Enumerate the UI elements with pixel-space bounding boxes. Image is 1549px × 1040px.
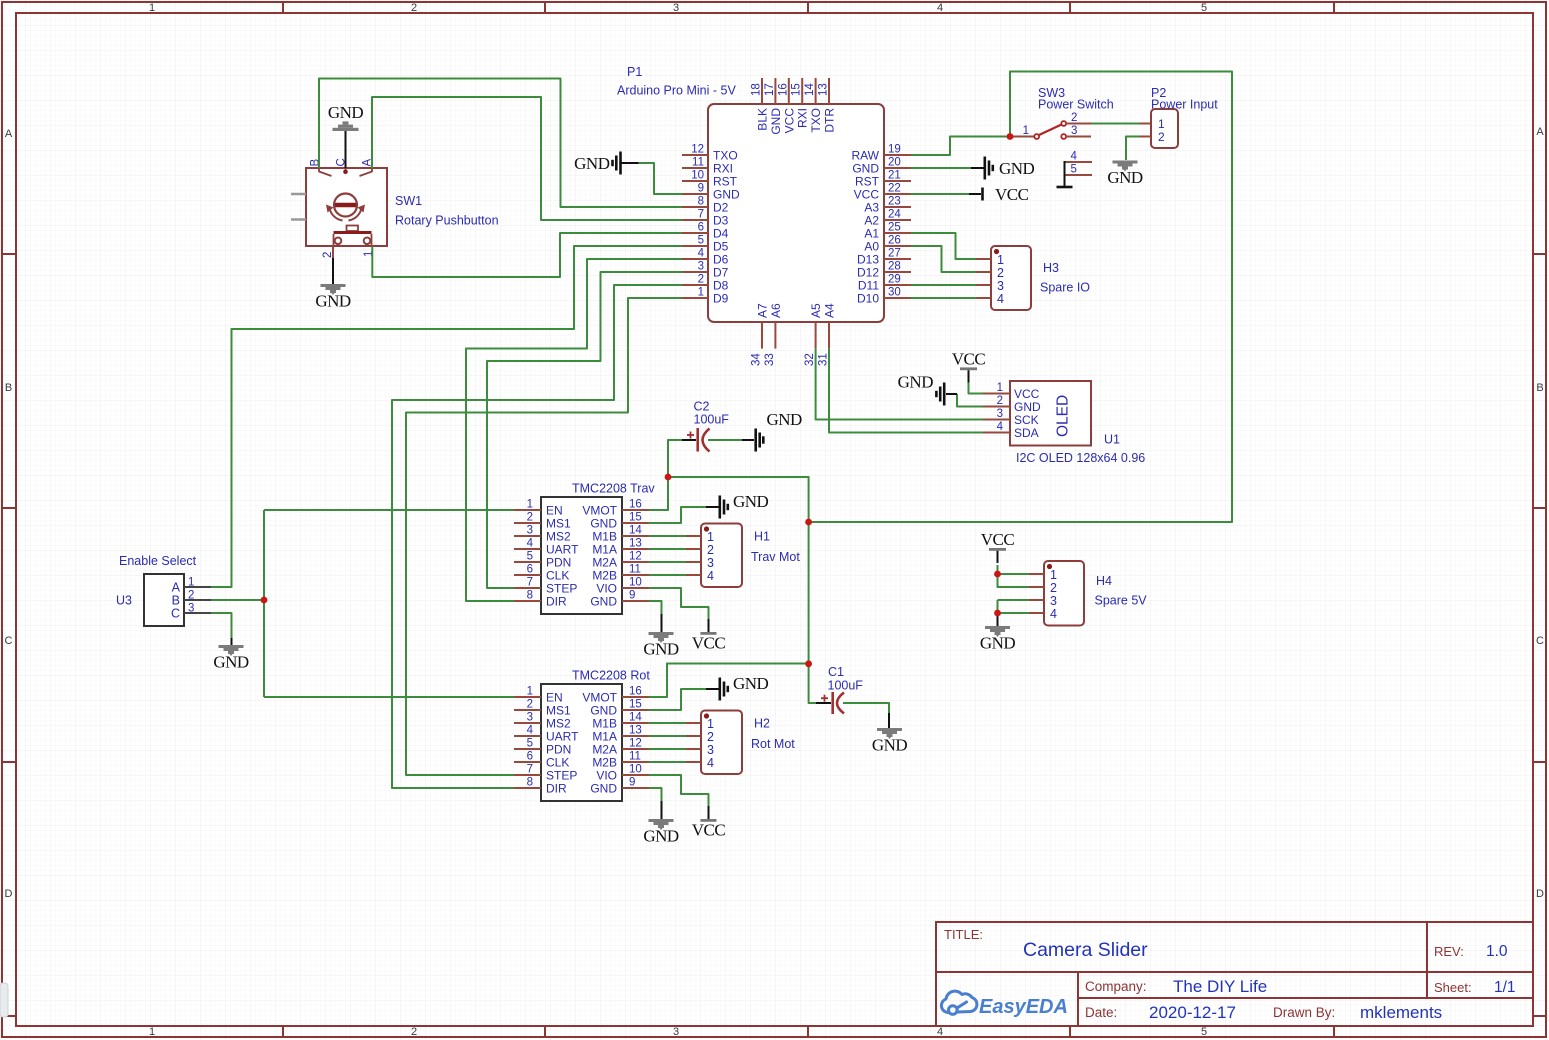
wire Rot GND pin9	[649, 788, 662, 807]
svg-text:U3: U3	[116, 594, 132, 608]
pin 1 A	[184, 586, 211, 588]
svg-text:GND: GND	[328, 103, 364, 122]
ground below C1	[877, 728, 902, 731]
pin 7 STEP	[514, 587, 541, 589]
svg-text:5: 5	[1071, 164, 1077, 176]
svg-text:14: 14	[804, 83, 816, 96]
junction U3.B node	[261, 597, 268, 604]
svg-text:3: 3	[673, 1026, 679, 1038]
power flag VCC above H4	[989, 548, 1006, 551]
pin 12 TXO	[682, 154, 708, 156]
svg-text:4: 4	[698, 248, 705, 260]
pin 8 DIR	[514, 600, 541, 602]
svg-text:9: 9	[629, 777, 635, 789]
svg-text:GND: GND	[767, 410, 803, 429]
wire P2.2 to ground	[1126, 137, 1140, 161]
svg-text:Date:: Date:	[1085, 1005, 1117, 1020]
svg-text:VIO: VIO	[596, 769, 617, 783]
pin 4	[686, 574, 701, 576]
svg-text:M1B: M1B	[592, 530, 617, 544]
wire Trav motor pin to H1 y=549	[649, 548, 686, 550]
wire C2 positive lead	[668, 440, 682, 477]
pin 6 CLK	[514, 761, 541, 763]
pin 3 MS2	[514, 722, 541, 724]
svg-text:STEP: STEP	[546, 769, 577, 783]
svg-text:Spare 5V: Spare 5V	[1095, 594, 1148, 608]
svg-text:Rotary Pushbutton: Rotary Pushbutton	[395, 214, 499, 228]
svg-text:VMOT: VMOT	[582, 691, 617, 705]
svg-text:GND: GND	[999, 159, 1035, 178]
EasyEDA logo	[941, 991, 977, 1014]
svg-text:H1: H1	[754, 530, 770, 544]
svg-text:MS1: MS1	[546, 704, 571, 718]
connector H3 Spare IO	[976, 246, 1090, 310]
wire net VMOT down	[808, 522, 810, 664]
svg-text:Camera Slider: Camera Slider	[1023, 939, 1148, 961]
svg-text:GND: GND	[980, 634, 1016, 653]
pin 1 VCC	[983, 393, 1010, 395]
pin 13 M1A	[622, 548, 649, 550]
ground GND above SW1	[333, 128, 359, 131]
wire net RAW to power switch	[911, 137, 1008, 156]
svg-text:9: 9	[629, 590, 635, 602]
pin 2 D8	[682, 284, 708, 286]
wire Rot motor pin to H2 y=736	[649, 735, 686, 737]
svg-text:2: 2	[1071, 112, 1077, 124]
svg-text:CLK: CLK	[546, 569, 569, 583]
pin 9 GND	[622, 600, 649, 602]
pin 18 BLK	[761, 78, 763, 104]
SW3 lever	[1039, 125, 1062, 136]
wire net D9 : P1.D9 to TMC Rot STEP	[406, 298, 682, 775]
wire net D2 : SW1.B to P1.D2	[319, 79, 682, 208]
pin 20 GND	[884, 167, 911, 169]
pin 3 MS2	[514, 535, 541, 537]
wire net D3 : SW1.A to P1.D3	[372, 97, 682, 220]
SW3 pin 1	[1012, 136, 1034, 138]
svg-text:27: 27	[888, 248, 901, 260]
svg-text:16: 16	[629, 686, 642, 698]
svg-text:H3: H3	[1043, 261, 1059, 275]
wire Rot motor pin to H2 y=749	[649, 748, 686, 750]
svg-text:SDA: SDA	[1014, 426, 1039, 440]
svg-text:1: 1	[527, 499, 533, 511]
svg-text:3: 3	[707, 743, 714, 757]
svg-text:3: 3	[188, 603, 194, 615]
svg-text:14: 14	[629, 712, 642, 724]
svg-text:6: 6	[527, 751, 533, 763]
svg-text:M2B: M2B	[592, 756, 617, 770]
IC TMC2208 Rot stepper driver	[514, 669, 650, 802]
svg-text:TITLE:: TITLE:	[944, 927, 983, 942]
svg-text:2: 2	[997, 266, 1004, 280]
svg-text:4: 4	[707, 756, 714, 770]
wire net D10 to H3.4	[911, 297, 976, 299]
svg-text:5: 5	[527, 738, 533, 750]
switch SW1 Rotary Pushbutton	[291, 158, 499, 258]
svg-text:11: 11	[629, 564, 641, 576]
svg-text:VCC: VCC	[782, 108, 796, 134]
svg-text:A4: A4	[823, 303, 837, 318]
svg-text:GND: GND	[898, 373, 934, 392]
svg-text:PDN: PDN	[546, 556, 571, 570]
svg-text:100uF: 100uF	[828, 679, 864, 693]
svg-text:VCC: VCC	[981, 530, 1015, 549]
wire net A1 to H3.1	[911, 233, 976, 259]
svg-text:VCC: VCC	[952, 349, 986, 368]
svg-text:Power Switch: Power Switch	[1038, 98, 1114, 112]
pin 29 D11	[884, 284, 911, 286]
pin 5 D5	[682, 245, 708, 247]
junction node VMOT mid	[805, 519, 812, 526]
svg-text:2: 2	[1050, 581, 1057, 595]
svg-text:VMOT: VMOT	[582, 504, 617, 518]
svg-text:4: 4	[527, 725, 534, 737]
svg-text:A3: A3	[864, 201, 879, 215]
pin 1 EN	[514, 696, 541, 698]
svg-text:C1: C1	[828, 665, 844, 679]
power flag VCC below Rot	[708, 806, 710, 819]
pin 19 RAW	[884, 154, 911, 156]
svg-text:GND: GND	[713, 188, 740, 202]
svg-text:Trav Mot: Trav Mot	[751, 550, 800, 564]
pin 31 A4	[828, 322, 830, 349]
svg-text:D3: D3	[713, 214, 729, 228]
wire net VMOT top loop	[809, 72, 1232, 523]
svg-text:VCC: VCC	[854, 188, 880, 202]
svg-text:8: 8	[698, 196, 704, 208]
ground below Rot pin9	[649, 819, 674, 822]
wire net D8 : P1.D8 to TMC Rot DIR	[392, 285, 682, 788]
svg-text:RST: RST	[855, 175, 880, 189]
svg-text:The DIY Life: The DIY Life	[1173, 977, 1267, 996]
pin 14 M1B	[622, 722, 649, 724]
svg-text:1: 1	[698, 287, 704, 299]
pin 7 STEP	[514, 774, 541, 776]
pin 23 A3	[884, 206, 911, 208]
pin 33 A6	[774, 322, 776, 349]
pin 3	[686, 561, 701, 563]
svg-text:2: 2	[997, 395, 1003, 407]
svg-text:1: 1	[149, 1026, 155, 1038]
svg-text:GND: GND	[574, 154, 610, 173]
pin 13 DTR	[828, 78, 830, 104]
pin 3 SCK	[983, 419, 1010, 421]
connector H2 Rot Mot	[686, 711, 742, 775]
pin 4 UART	[514, 548, 541, 550]
wire Trav motor pin to H1 y=536	[649, 535, 686, 537]
svg-text:29: 29	[888, 274, 901, 286]
svg-text:M2A: M2A	[592, 743, 617, 757]
svg-text:9: 9	[698, 183, 704, 195]
wire net VMOT mid	[668, 477, 809, 522]
svg-text:M2A: M2A	[592, 556, 617, 570]
svg-text:I2C OLED 128x64 0.96: I2C OLED 128x64 0.96	[1016, 451, 1145, 465]
pin 2	[686, 735, 701, 737]
wire Rot GND pin15	[649, 689, 706, 710]
pin 2	[1029, 586, 1044, 588]
SW1 pushbutton	[347, 226, 359, 232]
pin 15 RXI	[801, 78, 803, 104]
pin 3	[976, 284, 991, 286]
wire net SCK : A5 to OLED	[816, 349, 983, 420]
svg-text:GND: GND	[590, 704, 617, 718]
svg-text:3: 3	[673, 2, 679, 14]
svg-text:TXO: TXO	[713, 149, 738, 163]
svg-text:D: D	[5, 888, 13, 900]
wire C1 positive lead	[809, 664, 816, 703]
svg-text:2: 2	[188, 590, 194, 602]
junction H4 GND node	[994, 610, 1001, 617]
pin 2 MS1	[514, 709, 541, 711]
svg-text:D9: D9	[713, 292, 729, 306]
wire enable net to Trav EN	[264, 509, 514, 511]
svg-text:GND: GND	[733, 492, 769, 511]
svg-text:30: 30	[888, 287, 901, 299]
svg-text:DIR: DIR	[546, 595, 567, 609]
wire enable net to Rot EN	[264, 696, 514, 698]
svg-text:3: 3	[527, 712, 533, 724]
wire net D7 : P1.D7 to TMC Trav STEP	[487, 272, 682, 588]
pin 4	[976, 297, 991, 299]
svg-text:2: 2	[707, 543, 714, 557]
wire OLED VCC	[969, 382, 984, 394]
svg-text:1: 1	[149, 2, 155, 14]
pin 9 GND	[682, 193, 708, 195]
wire U3.B to enable net	[211, 599, 264, 601]
power flag VCC above OLED	[960, 367, 977, 370]
svg-text:2: 2	[411, 1026, 417, 1038]
svg-text:7: 7	[527, 577, 533, 589]
svg-text:1: 1	[527, 686, 533, 698]
IC U3 Enable Select	[116, 554, 211, 626]
svg-text:GND: GND	[733, 674, 769, 693]
svg-text:BLK: BLK	[756, 108, 770, 131]
wire H4 VCC net	[998, 565, 1030, 587]
pin 16 VMOT	[622, 696, 649, 698]
svg-text:2020-12-17: 2020-12-17	[1149, 1003, 1236, 1022]
svg-text:13: 13	[629, 538, 642, 550]
svg-text:2: 2	[1158, 130, 1165, 144]
svg-text:2: 2	[698, 274, 704, 286]
svg-text:GND: GND	[769, 108, 783, 135]
pin 2 MS1	[514, 522, 541, 524]
pin 26 A0	[884, 245, 911, 247]
svg-text:VCC: VCC	[692, 821, 726, 840]
pin 11 M2B	[622, 761, 649, 763]
zone tick marks	[282, 2, 284, 13]
wire Trav GND pin9	[649, 601, 662, 620]
wire U3.C to ground	[211, 613, 232, 644]
svg-text:26: 26	[888, 235, 901, 247]
svg-text:23: 23	[888, 196, 901, 208]
svg-text:22: 22	[888, 183, 901, 195]
svg-text:4: 4	[937, 2, 943, 14]
pin 3	[1029, 599, 1044, 601]
svg-text:GND: GND	[872, 736, 908, 755]
svg-text:Drawn By:: Drawn By:	[1273, 1005, 1335, 1020]
junction node at SW3 pin1	[1007, 133, 1014, 140]
svg-text:GND: GND	[1014, 400, 1041, 414]
pin 1	[1029, 573, 1044, 575]
svg-text:UART: UART	[546, 543, 579, 557]
wire TMC Trav VMOT pin16	[649, 477, 668, 510]
svg-text:1: 1	[188, 577, 194, 589]
junction H4 VCC node	[994, 571, 1001, 578]
power flag VCC pin22	[969, 193, 981, 195]
svg-text:1: 1	[1050, 568, 1057, 582]
junction node C1/VMOT	[805, 660, 812, 667]
ground left of OLED	[946, 393, 957, 395]
svg-text:6: 6	[527, 564, 533, 576]
svg-text:1: 1	[707, 717, 714, 731]
SW3 pins 4 5	[1065, 161, 1093, 163]
svg-text:RXI: RXI	[796, 108, 810, 128]
SW3 pin4/5 ground bar	[1064, 161, 1066, 187]
pin 10 VIO	[622, 774, 649, 776]
svg-text:4: 4	[1050, 607, 1057, 621]
ground below U3	[219, 645, 244, 648]
svg-text:A0: A0	[864, 240, 879, 254]
svg-text:B: B	[172, 594, 180, 608]
pin 2	[976, 271, 991, 273]
IC U1 I2C OLED 128x64 0.96	[983, 381, 1145, 465]
svg-text:100uF: 100uF	[694, 413, 730, 427]
svg-text:15: 15	[791, 83, 803, 96]
svg-text:A6: A6	[769, 303, 783, 318]
pin 2 B	[184, 599, 211, 601]
svg-text:1: 1	[707, 530, 714, 544]
svg-text:3: 3	[997, 408, 1003, 420]
pin 3 D7	[682, 271, 708, 273]
pin 24 A2	[884, 219, 911, 221]
svg-text:D11: D11	[858, 279, 879, 293]
ground below P2	[1113, 161, 1138, 164]
pin 1	[686, 722, 701, 724]
pin 4 UART	[514, 735, 541, 737]
svg-text:VCC: VCC	[995, 185, 1029, 204]
svg-text:12: 12	[691, 144, 704, 156]
title block frame	[936, 922, 1533, 1026]
P2 pin 1	[1140, 123, 1152, 125]
svg-text:VIO: VIO	[596, 582, 617, 596]
wire net D6 : P1.D6 to TMC Trav DIR	[466, 259, 682, 601]
wire Rot motor pin to H2 y=762	[649, 761, 686, 763]
pin 13 M1A	[622, 735, 649, 737]
pin 14 M1B	[622, 535, 649, 537]
wire net A0 to H3.2	[911, 246, 976, 272]
svg-text:18: 18	[751, 83, 763, 96]
svg-text:B: B	[5, 382, 12, 394]
svg-text:UART: UART	[546, 730, 579, 744]
svg-text:7: 7	[698, 209, 704, 221]
pin 11 M2B	[622, 574, 649, 576]
svg-text:D6: D6	[713, 253, 729, 267]
svg-text:M2B: M2B	[592, 569, 617, 583]
wire P1 GND pin9 to ground flag	[638, 163, 682, 194]
svg-text:GND: GND	[1107, 168, 1143, 187]
svg-text:6: 6	[698, 222, 704, 234]
pin 15 GND	[622, 709, 649, 711]
svg-text:8: 8	[527, 777, 533, 789]
pin 7 D3	[682, 219, 708, 221]
pin 16 VMOT	[622, 509, 649, 511]
pin 6 CLK	[514, 574, 541, 576]
ground right of C2	[742, 439, 754, 441]
svg-text:Sheet:: Sheet:	[1434, 980, 1472, 995]
svg-text:A5: A5	[809, 303, 823, 318]
svg-text:3: 3	[1071, 125, 1077, 137]
svg-text:RAW: RAW	[851, 149, 879, 163]
svg-text:1: 1	[1158, 117, 1165, 131]
wire P1 GND pin20	[911, 167, 982, 169]
svg-text:GND: GND	[852, 162, 879, 176]
pin 8 D2	[682, 206, 708, 208]
svg-text:16: 16	[629, 499, 642, 511]
svg-text:24: 24	[888, 209, 901, 221]
wire C1 ground lead	[843, 703, 889, 727]
pin 14 TXO	[815, 78, 817, 104]
svg-text:EN: EN	[546, 504, 563, 518]
pin 8 DIR	[514, 787, 541, 789]
ground Rot pin15	[706, 688, 719, 690]
wire net SDA : A4 to OLED	[829, 349, 983, 433]
connector P1 Arduino Pro Mini - 5V	[617, 65, 911, 366]
wire Trav motor pin to H1 y=562	[649, 561, 686, 563]
wire net D11 to H3.3	[911, 284, 976, 286]
P2 pin 2	[1140, 136, 1152, 138]
svg-text:10: 10	[629, 577, 642, 589]
pin 1	[976, 258, 991, 260]
power flag VCC below Trav	[708, 619, 710, 632]
ground GND below SW1	[321, 284, 346, 287]
svg-text:TMC2208 Trav: TMC2208 Trav	[572, 482, 655, 496]
svg-text:P1: P1	[627, 65, 642, 79]
pin 21 RST	[884, 180, 911, 182]
svg-text:A: A	[172, 581, 181, 595]
svg-text:M1B: M1B	[592, 717, 617, 731]
ground right of P1	[971, 167, 984, 169]
svg-text:1/1: 1/1	[1494, 979, 1516, 996]
pin 12 M2A	[622, 561, 649, 563]
pin 3	[686, 748, 701, 750]
svg-text:GND: GND	[590, 782, 617, 796]
svg-text:Enable Select: Enable Select	[119, 554, 197, 568]
wire H4 GND net	[998, 600, 1030, 613]
svg-text:7: 7	[527, 764, 533, 776]
svg-text:D4: D4	[713, 227, 729, 241]
svg-text:31: 31	[818, 353, 830, 366]
connector H4 Spare 5V	[1029, 561, 1084, 626]
connector H1 Trav Mot	[686, 524, 742, 588]
svg-text:SW1: SW1	[395, 194, 422, 208]
pin 1 EN	[514, 509, 541, 511]
svg-text:MS1: MS1	[546, 517, 571, 531]
pin 16 VCC	[788, 78, 790, 104]
svg-text:C: C	[1536, 635, 1544, 647]
pin 27 D13	[884, 258, 911, 260]
svg-text:15: 15	[629, 699, 642, 711]
svg-text:1: 1	[997, 382, 1003, 394]
pin 10 VIO	[622, 587, 649, 589]
svg-text:PDN: PDN	[546, 743, 571, 757]
svg-text:11: 11	[692, 157, 704, 169]
wire Trav VIO to VCC	[649, 588, 709, 620]
svg-text:D2: D2	[713, 201, 729, 215]
svg-text:10: 10	[629, 764, 642, 776]
svg-text:A: A	[5, 128, 13, 140]
SW3 pin 2	[1061, 121, 1066, 126]
